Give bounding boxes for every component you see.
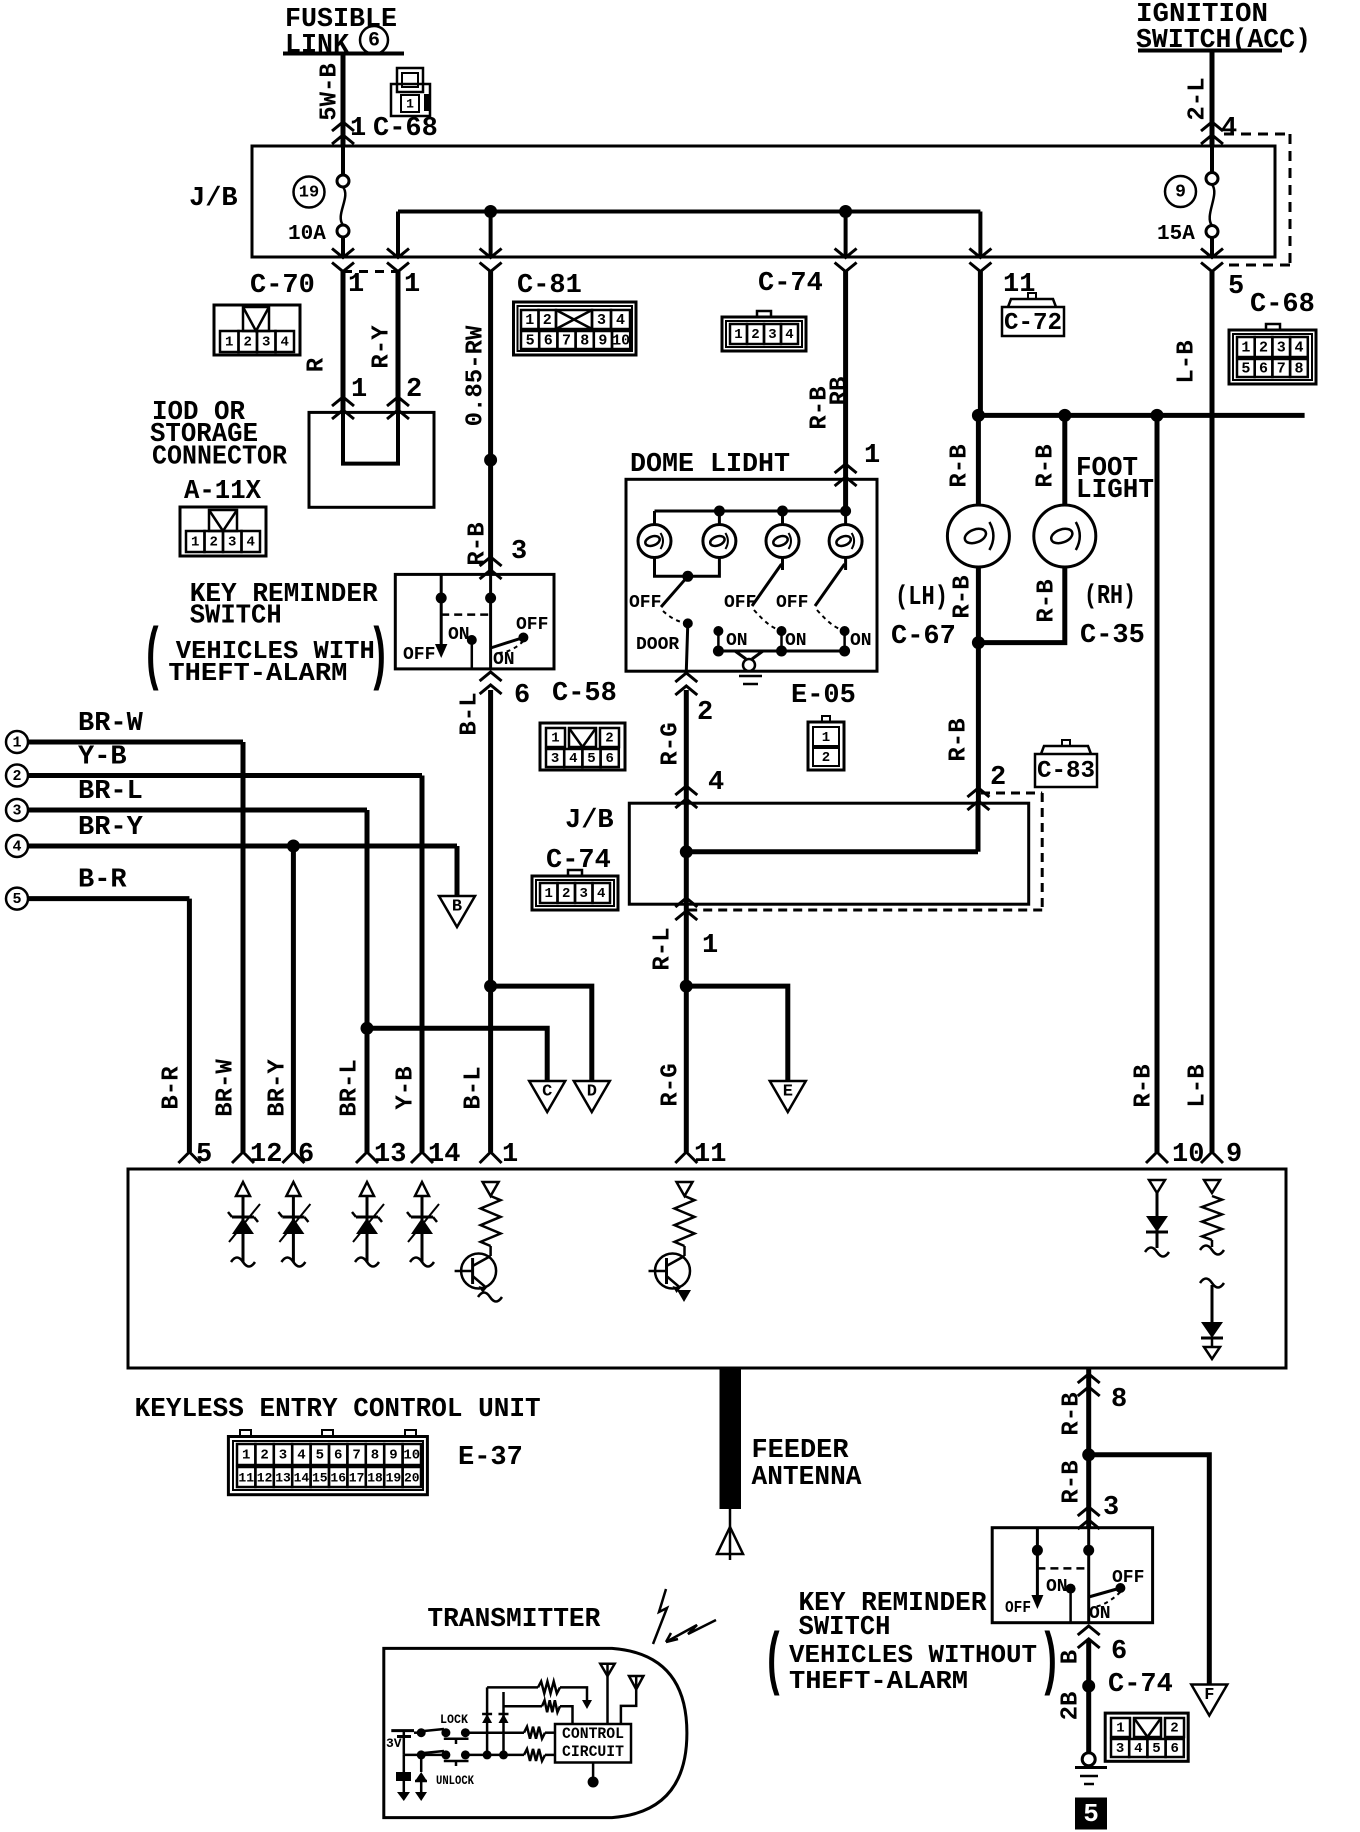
svg-text:C: C (542, 1083, 552, 1102)
svg-text:B: B (452, 898, 462, 917)
svg-text:4: 4 (616, 312, 625, 329)
svg-text:6: 6 (368, 30, 380, 53)
svg-text:1: 1 (551, 731, 559, 747)
svg-text:SWITCH: SWITCH (190, 601, 282, 631)
svg-text:(: ( (142, 619, 164, 698)
svg-text:5: 5 (1083, 1799, 1099, 1829)
svg-text:5: 5 (196, 1140, 212, 1170)
svg-text:3: 3 (279, 1448, 287, 1464)
svg-text:C-68: C-68 (1250, 290, 1315, 320)
svg-text:10A: 10A (288, 223, 326, 246)
svg-text:8: 8 (1111, 1385, 1127, 1415)
svg-text:R-B: R-B (1059, 1392, 1086, 1435)
svg-text:4: 4 (297, 1448, 305, 1464)
svg-text:6: 6 (298, 1140, 314, 1170)
svg-text:OFF: OFF (1005, 1599, 1031, 1618)
svg-text:A-11X: A-11X (184, 477, 262, 507)
svg-text:4: 4 (708, 768, 724, 798)
svg-text:E: E (783, 1083, 793, 1102)
svg-text:E-05: E-05 (791, 681, 856, 711)
svg-text:4: 4 (1134, 1741, 1142, 1757)
svg-text:ON: ON (1046, 1577, 1068, 1597)
svg-text:R-L: R-L (650, 927, 677, 970)
svg-text:DOME LIDHT: DOME LIDHT (630, 450, 790, 480)
svg-text:C-81: C-81 (517, 271, 582, 301)
svg-text:(LH): (LH) (895, 583, 948, 613)
svg-text:TRANSMITTER: TRANSMITTER (427, 1605, 601, 1635)
svg-text:1: 1 (822, 730, 830, 746)
svg-text:9: 9 (1175, 183, 1186, 203)
svg-text:20: 20 (404, 1471, 420, 1486)
svg-text:10: 10 (1172, 1140, 1204, 1170)
svg-text:14: 14 (294, 1471, 310, 1486)
svg-text:12: 12 (250, 1140, 282, 1170)
svg-text:4: 4 (1294, 340, 1303, 357)
svg-text:2: 2 (990, 763, 1006, 793)
svg-text:5: 5 (526, 333, 535, 350)
svg-text:B-R: B-R (159, 1066, 186, 1110)
svg-text:SWITCH: SWITCH (799, 1613, 891, 1643)
svg-text:2: 2 (1259, 340, 1268, 357)
svg-text:ON: ON (850, 631, 872, 651)
svg-text:2: 2 (1170, 1721, 1178, 1737)
svg-text:1: 1 (404, 270, 420, 300)
svg-text:RB: RB (827, 377, 854, 406)
svg-text:OFF: OFF (1112, 1568, 1144, 1588)
svg-text:BR-Y: BR-Y (78, 813, 144, 843)
svg-text:6: 6 (605, 751, 613, 767)
svg-text:LIGHT: LIGHT (1076, 476, 1154, 506)
svg-text:C-83: C-83 (1037, 758, 1095, 785)
svg-text:J/B: J/B (565, 806, 614, 836)
svg-text:UNLOCK: UNLOCK (436, 1773, 474, 1788)
svg-text:B-L: B-L (461, 1066, 488, 1109)
svg-text:13: 13 (275, 1471, 291, 1486)
svg-text:2-L: 2-L (1185, 77, 1212, 120)
svg-text:J/B: J/B (189, 184, 238, 214)
svg-text:6: 6 (1111, 1637, 1127, 1667)
svg-text:THEFT-ALARM: THEFT-ALARM (789, 1666, 968, 1696)
svg-text:9: 9 (598, 333, 607, 350)
svg-text:2: 2 (562, 886, 570, 902)
svg-text:6: 6 (514, 681, 530, 711)
svg-text:5: 5 (12, 891, 21, 908)
svg-text:3: 3 (12, 803, 21, 820)
svg-text:1: 1 (351, 375, 367, 405)
svg-text:C-74: C-74 (758, 269, 823, 299)
svg-text:(: ( (763, 1624, 785, 1703)
svg-text:1: 1 (525, 312, 534, 329)
svg-text:R-Y: R-Y (369, 325, 396, 369)
svg-text:4: 4 (1221, 114, 1237, 144)
svg-text:3: 3 (262, 335, 270, 351)
svg-text:12: 12 (257, 1471, 273, 1486)
svg-text:1: 1 (12, 735, 21, 752)
svg-text:C-72: C-72 (1004, 310, 1062, 337)
svg-text:(RH): (RH) (1084, 582, 1136, 612)
svg-text:2: 2 (697, 698, 713, 728)
svg-text:4: 4 (12, 839, 21, 856)
svg-text:1: 1 (242, 1448, 250, 1464)
svg-text:3: 3 (1277, 340, 1286, 357)
svg-text:B-R: B-R (78, 866, 127, 896)
svg-text:BR-W: BR-W (78, 709, 144, 739)
svg-text:3: 3 (580, 886, 588, 902)
svg-text:BR-L: BR-L (78, 777, 143, 807)
svg-text:16: 16 (330, 1471, 346, 1486)
svg-text:BR-L: BR-L (337, 1059, 364, 1117)
svg-text:14: 14 (428, 1140, 460, 1170)
svg-text:2: 2 (260, 1448, 268, 1464)
svg-text:1: 1 (864, 441, 880, 471)
svg-text:1: 1 (191, 535, 199, 551)
svg-text:L-B: L-B (1185, 1064, 1212, 1107)
svg-text:3: 3 (597, 312, 606, 329)
svg-text:2: 2 (406, 375, 422, 405)
svg-text:C-70: C-70 (250, 271, 315, 301)
svg-text:4: 4 (247, 535, 255, 551)
svg-text:7: 7 (562, 333, 571, 350)
svg-text:2: 2 (12, 768, 21, 785)
svg-text:F: F (1204, 1686, 1214, 1705)
svg-text:LINK: LINK (285, 31, 350, 61)
svg-text:R-B: R-B (947, 444, 974, 487)
svg-text:OFF: OFF (403, 645, 435, 665)
svg-text:13: 13 (374, 1140, 406, 1170)
svg-text:Y-B: Y-B (393, 1066, 420, 1109)
svg-text:CONTROL: CONTROL (562, 1725, 624, 1743)
svg-text:E-37: E-37 (458, 1443, 523, 1473)
svg-text:LOCK: LOCK (440, 1712, 468, 1727)
svg-text:THEFT-ALARM: THEFT-ALARM (168, 658, 347, 688)
svg-text:ON: ON (726, 631, 748, 651)
svg-text:C-58: C-58 (552, 679, 617, 709)
svg-text:1: 1 (545, 886, 553, 902)
svg-text:C-35: C-35 (1080, 621, 1145, 651)
svg-text:2: 2 (605, 731, 613, 747)
svg-text:15A: 15A (1157, 223, 1195, 246)
svg-text:R-B: R-B (1033, 444, 1060, 487)
svg-text:ON: ON (1089, 1604, 1111, 1624)
svg-text:R-B: R-B (1131, 1064, 1158, 1107)
svg-text:2: 2 (210, 535, 218, 551)
svg-text:19: 19 (386, 1471, 402, 1486)
svg-text:1: 1 (1116, 1721, 1124, 1737)
svg-text:Y-B: Y-B (78, 743, 127, 773)
svg-text:2: 2 (543, 312, 552, 329)
svg-text:R: R (304, 357, 331, 372)
svg-text:R-G: R-G (658, 1063, 685, 1106)
svg-text:3: 3 (551, 751, 559, 767)
svg-text:3: 3 (1116, 1741, 1124, 1757)
svg-text:1: 1 (348, 270, 364, 300)
svg-text:9: 9 (1226, 1140, 1242, 1170)
svg-text:2: 2 (751, 327, 759, 343)
svg-text:2: 2 (244, 335, 252, 351)
svg-text:4: 4 (281, 335, 289, 351)
svg-text:R-G: R-G (658, 722, 685, 765)
svg-text:9: 9 (389, 1448, 397, 1464)
svg-text:CONNECTOR: CONNECTOR (152, 443, 288, 473)
svg-text:ON: ON (448, 625, 470, 645)
svg-text:3: 3 (228, 535, 236, 551)
svg-text:5: 5 (1152, 1741, 1160, 1757)
svg-text:6: 6 (1259, 361, 1268, 378)
svg-text:BR-W: BR-W (213, 1059, 240, 1117)
svg-text:3: 3 (511, 537, 527, 567)
svg-text:8: 8 (371, 1448, 379, 1464)
svg-text:C-68: C-68 (373, 114, 438, 144)
svg-text:10: 10 (403, 1448, 420, 1464)
svg-text:6: 6 (1170, 1741, 1178, 1757)
svg-text:R-B: R-B (946, 718, 973, 761)
svg-text:1: 1 (702, 931, 718, 961)
svg-text:C-74: C-74 (1108, 1670, 1173, 1700)
svg-text:D: D (587, 1083, 597, 1102)
svg-text:ON: ON (493, 650, 515, 670)
svg-text:17: 17 (349, 1471, 365, 1486)
svg-text:DOOR: DOOR (636, 635, 679, 655)
svg-text:ON: ON (785, 631, 807, 651)
svg-text:10: 10 (612, 333, 630, 350)
svg-text:5: 5 (587, 751, 595, 767)
svg-text:19: 19 (299, 184, 319, 203)
svg-text:R-B: R-B (1034, 579, 1061, 622)
svg-text:18: 18 (367, 1471, 383, 1486)
svg-text:5: 5 (1228, 272, 1244, 302)
svg-text:6: 6 (544, 333, 553, 350)
svg-text:3: 3 (1103, 1493, 1119, 1523)
svg-text:BR-Y: BR-Y (265, 1059, 292, 1117)
svg-text:8: 8 (580, 333, 589, 350)
svg-text:C-67: C-67 (891, 622, 956, 652)
svg-text:OFF: OFF (724, 593, 756, 613)
svg-text:R-B: R-B (1059, 1460, 1086, 1503)
svg-text:B: B (1058, 1650, 1085, 1664)
svg-text:ANTENNA: ANTENNA (752, 1463, 863, 1493)
svg-text:7: 7 (352, 1448, 360, 1464)
svg-text:6: 6 (334, 1448, 342, 1464)
svg-text:KEYLESS ENTRY CONTROL UNIT: KEYLESS ENTRY CONTROL UNIT (135, 1395, 541, 1425)
svg-text:3: 3 (768, 327, 776, 343)
svg-text:2: 2 (822, 750, 830, 766)
svg-text:15: 15 (312, 1471, 328, 1486)
svg-text:1: 1 (225, 335, 233, 351)
svg-text:2B: 2B (1058, 1692, 1085, 1721)
svg-text:1: 1 (350, 114, 366, 144)
svg-text:B-L: B-L (457, 692, 484, 735)
svg-text:R-B: R-B (950, 575, 977, 618)
svg-text:4: 4 (785, 327, 793, 343)
svg-text:5W-B: 5W-B (317, 63, 344, 121)
svg-text:3V: 3V (386, 1736, 402, 1751)
svg-text:8: 8 (1294, 361, 1303, 378)
svg-text:0.85-RW: 0.85-RW (463, 325, 490, 426)
svg-text:11: 11 (694, 1140, 726, 1170)
svg-text:L-B: L-B (1174, 340, 1201, 383)
svg-text:OFF: OFF (516, 615, 548, 635)
svg-text:11: 11 (1003, 270, 1035, 300)
svg-text:11: 11 (238, 1471, 254, 1486)
svg-text:5: 5 (1241, 361, 1250, 378)
svg-text:1: 1 (406, 97, 414, 112)
svg-text:1: 1 (502, 1140, 518, 1170)
svg-text:5: 5 (316, 1448, 324, 1464)
svg-text:C-74: C-74 (546, 846, 611, 876)
svg-text:1: 1 (1241, 340, 1250, 357)
svg-text:4: 4 (569, 751, 577, 767)
svg-text:1: 1 (734, 327, 742, 343)
svg-text:4: 4 (597, 886, 605, 902)
svg-text:CIRCUIT: CIRCUIT (562, 1743, 624, 1761)
svg-text:OFF: OFF (629, 593, 661, 613)
svg-text:FEEDER: FEEDER (752, 1436, 850, 1466)
svg-text:OFF: OFF (776, 593, 808, 613)
svg-text:7: 7 (1277, 361, 1286, 378)
